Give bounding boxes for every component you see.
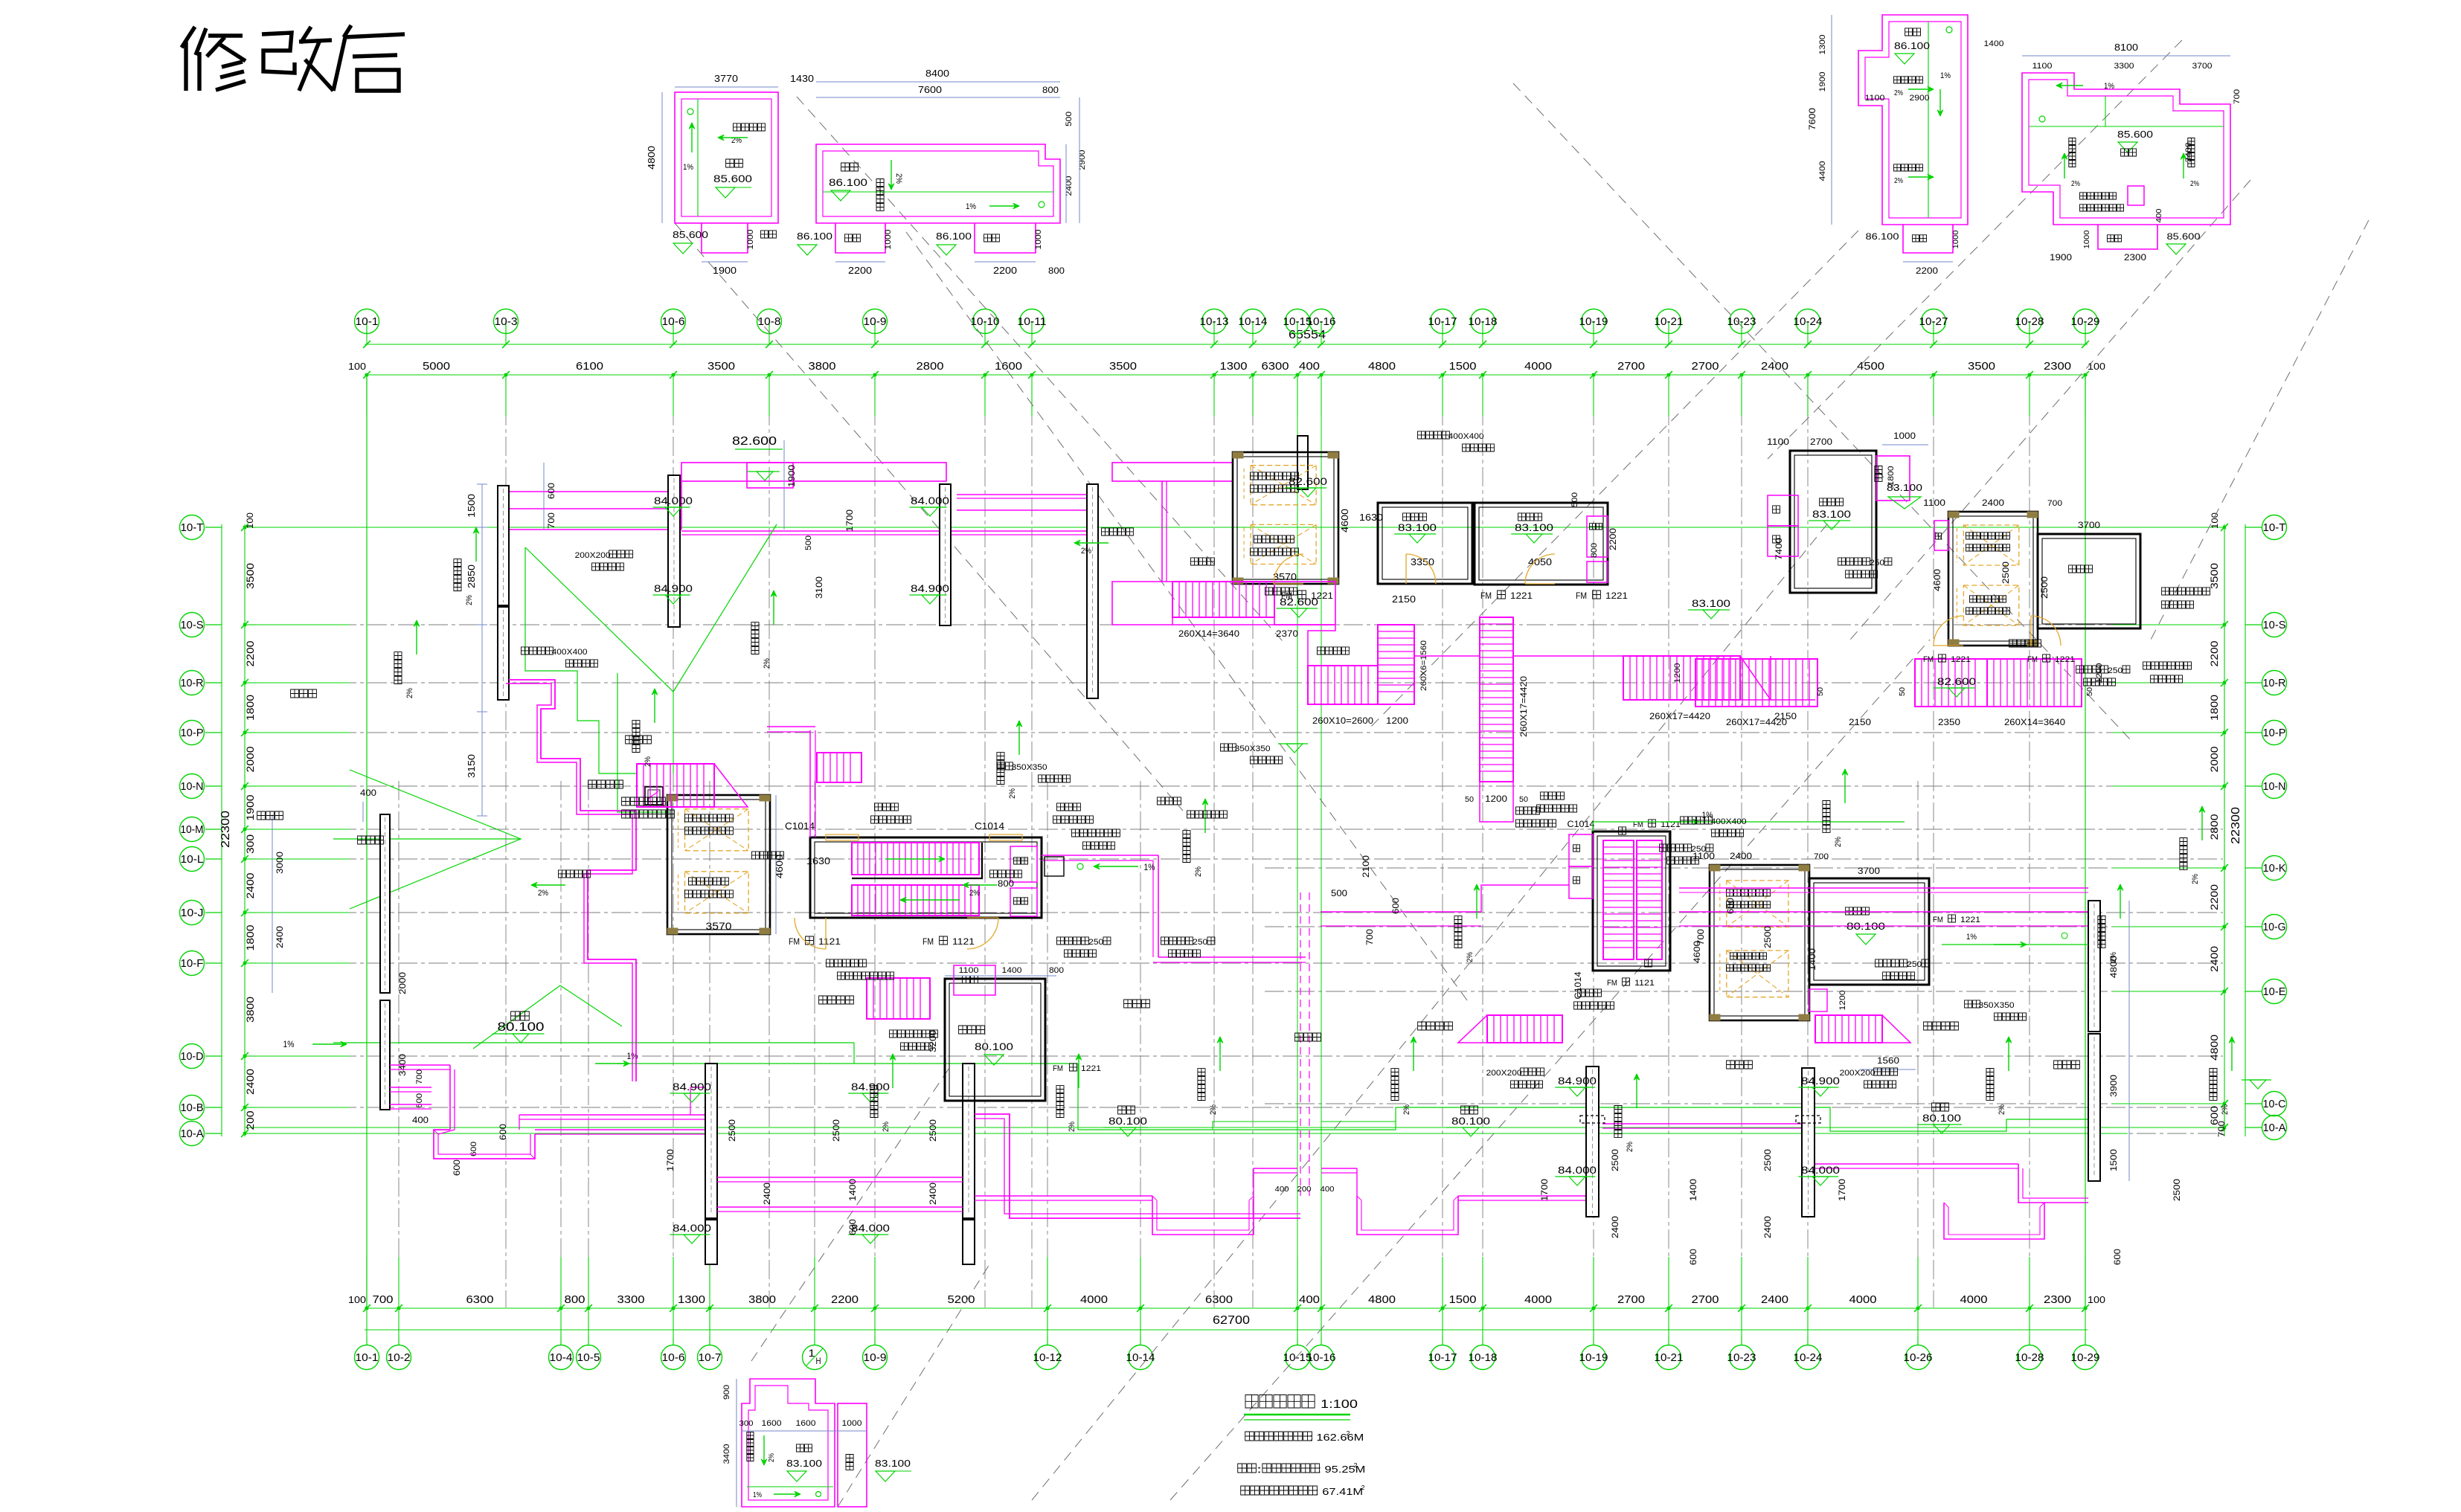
svg-text:1121: 1121 bbox=[952, 936, 975, 947]
svg-text:84.900: 84.900 bbox=[911, 582, 949, 594]
svg-text:2400: 2400 bbox=[1730, 851, 1752, 861]
svg-text:1%: 1% bbox=[283, 1039, 295, 1049]
svg-text:2200: 2200 bbox=[848, 265, 872, 276]
svg-text:10-24: 10-24 bbox=[1794, 315, 1823, 328]
svg-text:10-26: 10-26 bbox=[1904, 1351, 1933, 1364]
svg-text:500: 500 bbox=[1065, 112, 1074, 126]
svg-text:2%: 2% bbox=[1402, 1104, 1411, 1115]
magenta boundary top-center bbox=[1112, 582, 1815, 822]
detail C top-right bbox=[1807, 15, 2004, 276]
svg-text:1%: 1% bbox=[966, 202, 976, 211]
watershed labels bbox=[257, 689, 2080, 1069]
svg-text:10-6: 10-6 bbox=[662, 1351, 685, 1364]
svg-text:800: 800 bbox=[1048, 266, 1065, 276]
svg-text:10-16: 10-16 bbox=[1307, 1351, 1336, 1364]
svg-text:50: 50 bbox=[1519, 796, 1528, 804]
svg-text:FM: FM bbox=[923, 936, 934, 947]
svg-text:1400: 1400 bbox=[1002, 966, 1022, 975]
svg-text:4800: 4800 bbox=[646, 146, 657, 170]
stairs top-right cluster bbox=[1673, 640, 2104, 727]
svg-text:400X400: 400X400 bbox=[1448, 432, 1484, 441]
svg-text:2700: 2700 bbox=[1617, 1293, 1645, 1306]
svg-text:2900: 2900 bbox=[1910, 94, 1930, 103]
svg-text:3570: 3570 bbox=[1273, 571, 1297, 582]
svg-text:700: 700 bbox=[2216, 1121, 2227, 1137]
svg-text:62700: 62700 bbox=[1213, 1314, 1250, 1327]
svg-text:10-29: 10-29 bbox=[2071, 1351, 2100, 1364]
svg-text:10-E: 10-E bbox=[2263, 985, 2286, 998]
svg-text:260X14=3640: 260X14=3640 bbox=[2004, 717, 2065, 727]
svg-text:80.100: 80.100 bbox=[498, 1020, 545, 1034]
svg-text:2%: 2% bbox=[1008, 788, 1017, 799]
svg-text:10-S: 10-S bbox=[2263, 619, 2286, 631]
svg-text:1000: 1000 bbox=[746, 230, 755, 250]
svg-text:10-29: 10-29 bbox=[2071, 315, 2100, 328]
svg-text:260X10=2600: 260X10=2600 bbox=[1312, 715, 1373, 726]
svg-text:700: 700 bbox=[2047, 499, 2062, 508]
svg-text:1500: 1500 bbox=[1449, 1293, 1477, 1306]
bottom dimension chain bbox=[348, 1293, 2105, 1337]
svg-text:1300: 1300 bbox=[678, 1293, 705, 1306]
svg-text::: : bbox=[1257, 1464, 1262, 1475]
svg-text:2%: 2% bbox=[2191, 874, 2200, 884]
green ridge lines left bbox=[333, 524, 777, 1049]
svg-text:2400: 2400 bbox=[1982, 498, 2004, 508]
svg-text:1400: 1400 bbox=[1688, 1179, 1698, 1201]
svg-text:4600: 4600 bbox=[1932, 569, 1942, 591]
svg-text:1%: 1% bbox=[753, 1491, 762, 1499]
svg-text:6300: 6300 bbox=[1205, 1293, 1233, 1306]
elevation 84.000 bbox=[848, 1222, 890, 1244]
svg-text:3700: 3700 bbox=[1858, 866, 1880, 876]
svg-text:260X14=3640: 260X14=3640 bbox=[1178, 628, 1239, 639]
svg-text:2%: 2% bbox=[1834, 837, 1843, 847]
stair SB top-center bbox=[1308, 625, 1428, 726]
right dimension chain bbox=[2208, 512, 2245, 1136]
grid horizontals dash-dot bbox=[246, 527, 2223, 1133]
svg-text:500: 500 bbox=[1570, 492, 1579, 507]
svg-text:2200: 2200 bbox=[993, 265, 1017, 276]
svg-text:FM: FM bbox=[1933, 916, 1943, 924]
green axis stubs bbox=[246, 376, 2223, 1307]
svg-text:1100: 1100 bbox=[2032, 62, 2053, 71]
svg-text:82.600: 82.600 bbox=[1289, 475, 1327, 487]
svg-text:2%: 2% bbox=[882, 1122, 891, 1132]
svg-text:2850: 2850 bbox=[466, 564, 477, 588]
svg-text:2: 2 bbox=[1361, 1484, 1366, 1491]
svg-text:3500: 3500 bbox=[1109, 360, 1137, 373]
svg-text:85.600: 85.600 bbox=[2167, 231, 2201, 242]
svg-text:86.100: 86.100 bbox=[1894, 40, 1930, 51]
svg-text:1100: 1100 bbox=[1865, 94, 1885, 103]
svg-text:400X400: 400X400 bbox=[552, 648, 588, 657]
svg-text:3100: 3100 bbox=[814, 576, 824, 599]
svg-text:200: 200 bbox=[1297, 1186, 1312, 1194]
svg-text:2800: 2800 bbox=[2208, 814, 2220, 840]
svg-text:4800: 4800 bbox=[2208, 1035, 2220, 1061]
svg-text:2400: 2400 bbox=[1610, 1216, 1620, 1238]
svg-text:4000: 4000 bbox=[1960, 1293, 1988, 1306]
svg-text:3150: 3150 bbox=[466, 754, 477, 778]
svg-text:100: 100 bbox=[348, 361, 366, 372]
svg-text:300: 300 bbox=[739, 1420, 754, 1428]
svg-text:1221: 1221 bbox=[1605, 591, 1628, 601]
svg-text:2200: 2200 bbox=[831, 1293, 859, 1306]
svg-text:4800: 4800 bbox=[1368, 1293, 1396, 1306]
elevation 84.000 bbox=[1555, 1164, 1597, 1186]
svg-text:86.100: 86.100 bbox=[797, 231, 832, 242]
elevator machine room MR4 bbox=[1692, 851, 1829, 1020]
svg-text:10-9: 10-9 bbox=[864, 1351, 887, 1364]
fan rooms top-center bbox=[1378, 492, 1618, 585]
svg-text:10-14: 10-14 bbox=[1126, 1351, 1155, 1364]
svg-text:2500: 2500 bbox=[831, 1119, 841, 1142]
labels top-center bbox=[1191, 554, 1629, 605]
svg-text:3300: 3300 bbox=[2114, 62, 2134, 71]
svg-text:83.100: 83.100 bbox=[1515, 521, 1553, 533]
wind shafts mid bbox=[767, 727, 1306, 962]
parapet label bbox=[1838, 558, 1892, 578]
title text xiugaihou bbox=[182, 25, 405, 91]
svg-text:1700: 1700 bbox=[665, 1149, 676, 1171]
svg-text:700: 700 bbox=[1364, 929, 1375, 945]
svg-text:50: 50 bbox=[1465, 796, 1474, 804]
svg-text:6300: 6300 bbox=[1262, 360, 1289, 373]
svg-text:1500: 1500 bbox=[2108, 1149, 2119, 1171]
svg-text:C1014: C1014 bbox=[1568, 819, 1595, 829]
svg-text:10-3: 10-3 bbox=[495, 315, 518, 328]
svg-text:2000: 2000 bbox=[244, 746, 256, 772]
slope arrows scattered bbox=[394, 527, 2235, 1152]
svg-text:2000: 2000 bbox=[397, 972, 408, 994]
elevation 84.900 bbox=[848, 1081, 890, 1102]
svg-text:2: 2 bbox=[1354, 1462, 1358, 1469]
svg-text:250: 250 bbox=[1691, 845, 1706, 854]
svg-text:10-C: 10-C bbox=[2263, 1098, 2286, 1110]
svg-text:1000: 1000 bbox=[2083, 230, 2091, 248]
svg-text:2400: 2400 bbox=[244, 1069, 256, 1095]
svg-text:3500: 3500 bbox=[2208, 563, 2220, 589]
parapet label bbox=[1876, 959, 1929, 979]
svg-text:10-12: 10-12 bbox=[1033, 1351, 1062, 1364]
svg-text:1900: 1900 bbox=[244, 794, 256, 820]
green roof lines mid bbox=[283, 673, 2089, 1131]
svg-text:10-18: 10-18 bbox=[1469, 1351, 1498, 1364]
svg-text:2500: 2500 bbox=[1610, 1149, 1620, 1171]
svg-text:400: 400 bbox=[2155, 208, 2163, 222]
svg-text:4000: 4000 bbox=[1080, 1293, 1108, 1306]
svg-text:2400: 2400 bbox=[762, 1183, 772, 1205]
svg-text:4600: 4600 bbox=[1339, 509, 1350, 533]
svg-text:2350: 2350 bbox=[1938, 717, 1960, 727]
svg-text:400: 400 bbox=[1275, 1186, 1289, 1194]
elevation 84.000 bbox=[1798, 1164, 1840, 1186]
svg-text:50: 50 bbox=[1817, 687, 1825, 696]
elevator machine room MR2 bbox=[1233, 452, 1383, 584]
svg-text:1560: 1560 bbox=[1877, 1055, 1899, 1066]
axis bubbles top bbox=[355, 309, 2100, 335]
svg-text:C1014: C1014 bbox=[975, 820, 1004, 831]
bottom band piers right bbox=[1580, 1067, 1820, 1217]
svg-text:10-17: 10-17 bbox=[1428, 1351, 1457, 1364]
svg-text:2200: 2200 bbox=[244, 640, 256, 666]
svg-text:4800: 4800 bbox=[1368, 360, 1396, 373]
svg-text:80.100: 80.100 bbox=[1108, 1115, 1147, 1127]
svg-text:1221: 1221 bbox=[1510, 591, 1533, 601]
svg-text:2%: 2% bbox=[538, 889, 548, 898]
svg-text:10-28: 10-28 bbox=[2015, 315, 2044, 328]
svg-text:1700: 1700 bbox=[1837, 1179, 1847, 1201]
svg-text:1400: 1400 bbox=[1984, 39, 2004, 48]
svg-text:FM: FM bbox=[1576, 591, 1587, 601]
svg-text:1700: 1700 bbox=[844, 509, 855, 532]
svg-text:10-28: 10-28 bbox=[2015, 1351, 2044, 1364]
svg-text:1300: 1300 bbox=[1220, 360, 1248, 373]
svg-text:10-11: 10-11 bbox=[1018, 315, 1047, 328]
svg-text:800: 800 bbox=[998, 878, 1014, 889]
svg-text:1800: 1800 bbox=[2208, 695, 2220, 721]
svg-text:3570: 3570 bbox=[706, 920, 732, 932]
svg-text:2%: 2% bbox=[1466, 952, 1475, 962]
svg-text:10-5: 10-5 bbox=[577, 1351, 600, 1364]
bottom band mid magenta bbox=[717, 1177, 963, 1212]
svg-text:260X17=4420: 260X17=4420 bbox=[1518, 676, 1529, 737]
svg-text:1200: 1200 bbox=[1838, 991, 1847, 1011]
svg-text:83.100: 83.100 bbox=[1692, 597, 1730, 609]
svg-text:3800: 3800 bbox=[809, 360, 836, 373]
svg-text:3500: 3500 bbox=[244, 563, 256, 589]
svg-text:1630: 1630 bbox=[1359, 512, 1383, 523]
svg-text:1:100: 1:100 bbox=[1321, 1398, 1358, 1411]
bottom band left segment bbox=[390, 1065, 705, 1159]
svg-text:3500: 3500 bbox=[708, 360, 735, 373]
svg-text:7400: 7400 bbox=[1774, 538, 1784, 560]
svg-text:3800: 3800 bbox=[244, 997, 256, 1023]
svg-text:2400: 2400 bbox=[928, 1183, 938, 1205]
svg-text:400: 400 bbox=[360, 788, 376, 798]
svg-text:1221: 1221 bbox=[1951, 655, 1971, 664]
svg-text:700: 700 bbox=[2233, 89, 2242, 104]
mid-right corridor magenta bbox=[1321, 855, 2088, 945]
scattered labels bbox=[522, 431, 2027, 1088]
detail B top-middle bbox=[797, 68, 1087, 276]
svg-text:2370: 2370 bbox=[1276, 628, 1298, 639]
svg-text:2100: 2100 bbox=[1361, 855, 1371, 878]
svg-text:10-9: 10-9 bbox=[864, 315, 887, 328]
svg-text:10-G: 10-G bbox=[2263, 921, 2286, 933]
svg-text:1000: 1000 bbox=[1893, 431, 1916, 441]
svg-text:200X200: 200X200 bbox=[575, 551, 611, 560]
svg-text:1121: 1121 bbox=[818, 936, 841, 947]
fan room right of MR3 bbox=[1934, 520, 2140, 628]
svg-text:1900: 1900 bbox=[786, 465, 797, 487]
svg-text:: 95.25M: : 95.25M bbox=[1318, 1464, 1365, 1475]
svg-text:1100: 1100 bbox=[1767, 437, 1789, 447]
svg-text:10-N: 10-N bbox=[181, 780, 204, 793]
svg-text:6300: 6300 bbox=[466, 1293, 494, 1306]
svg-text:1000: 1000 bbox=[842, 1419, 862, 1428]
svg-text:10-18: 10-18 bbox=[1469, 315, 1498, 328]
svg-text:100: 100 bbox=[2088, 1294, 2105, 1305]
svg-text:2%: 2% bbox=[2109, 952, 2118, 962]
svg-text:84.000: 84.000 bbox=[1801, 1164, 1840, 1176]
svg-text:85.600: 85.600 bbox=[673, 229, 708, 240]
svg-text:2500: 2500 bbox=[1762, 1149, 1773, 1171]
right-center stair C1014 bbox=[1568, 819, 1681, 1000]
svg-text:600: 600 bbox=[415, 1093, 424, 1108]
svg-text:84.000: 84.000 bbox=[654, 495, 693, 506]
svg-text:250: 250 bbox=[1870, 559, 1884, 567]
west stepped roof edge bbox=[506, 680, 636, 1081]
svg-text:2700: 2700 bbox=[1692, 1293, 1719, 1306]
title block bottom bbox=[1238, 1395, 1366, 1498]
svg-text:8400: 8400 bbox=[925, 68, 949, 79]
svg-text:80.100: 80.100 bbox=[1451, 1115, 1490, 1127]
axis bubbles right bbox=[2245, 515, 2287, 1140]
elevation 84.000 bbox=[670, 1222, 711, 1244]
svg-text:H: H bbox=[816, 1356, 821, 1366]
svg-text:600: 600 bbox=[498, 1124, 508, 1140]
svg-text:6100: 6100 bbox=[576, 360, 603, 373]
fixed window label bbox=[1537, 792, 1577, 812]
detail A top-left bbox=[646, 73, 814, 276]
right edge strip bbox=[1942, 901, 2129, 1181]
svg-text:5200: 5200 bbox=[948, 1293, 975, 1306]
svg-text:FM: FM bbox=[1281, 591, 1292, 601]
svg-text:2%: 2% bbox=[2221, 1104, 2230, 1115]
svg-text:2700: 2700 bbox=[1810, 437, 1832, 447]
stair right of top-center bbox=[1623, 597, 1797, 721]
svg-text:3400: 3400 bbox=[722, 1444, 731, 1464]
svg-text:FM: FM bbox=[789, 936, 800, 947]
svg-text:84.000: 84.000 bbox=[673, 1222, 711, 1234]
piers top-left bbox=[498, 475, 1098, 700]
left dimension chain bbox=[219, 512, 257, 1137]
svg-text:1221: 1221 bbox=[1081, 1064, 1101, 1073]
svg-text:200X200: 200X200 bbox=[1840, 1069, 1876, 1078]
svg-text:2: 2 bbox=[1347, 1430, 1351, 1437]
svg-text:2300: 2300 bbox=[2044, 360, 2071, 373]
svg-text:10-1: 10-1 bbox=[356, 1351, 379, 1364]
svg-text:600: 600 bbox=[847, 1219, 858, 1235]
svg-text:3700: 3700 bbox=[2078, 520, 2100, 530]
expansion joint bbox=[1275, 892, 1335, 1196]
svg-text:100: 100 bbox=[2088, 361, 2105, 372]
grid verticals bottom-only bbox=[399, 781, 1918, 1307]
svg-text:82.600: 82.600 bbox=[1937, 675, 1976, 687]
top dimension chain bbox=[348, 329, 2105, 379]
svg-text:2%: 2% bbox=[1209, 1104, 1218, 1115]
elevation 84.900 bbox=[1555, 1075, 1597, 1096]
svg-text:2%: 2% bbox=[644, 756, 652, 767]
svg-text:350X350: 350X350 bbox=[1012, 763, 1047, 772]
svg-text:10-19: 10-19 bbox=[1579, 315, 1608, 328]
svg-text:83.100: 83.100 bbox=[1398, 521, 1437, 533]
green principal axis lines bbox=[246, 376, 2223, 1307]
svg-text:10-21: 10-21 bbox=[1655, 315, 1684, 328]
bottom band right half bbox=[975, 1124, 2088, 1239]
svg-text:85.600: 85.600 bbox=[713, 173, 752, 184]
svg-text:3700: 3700 bbox=[2192, 62, 2213, 71]
svg-text:1221: 1221 bbox=[2055, 655, 2075, 664]
svg-text:2%: 2% bbox=[405, 688, 414, 698]
svg-text:3400: 3400 bbox=[2184, 143, 2193, 163]
svg-text:2500: 2500 bbox=[2039, 576, 2050, 599]
svg-text:1900: 1900 bbox=[713, 265, 737, 276]
svg-text:10-16: 10-16 bbox=[1307, 315, 1336, 328]
svg-text:100: 100 bbox=[245, 512, 255, 529]
svg-text:500: 500 bbox=[1331, 888, 1347, 898]
stair SD vertical bbox=[1465, 617, 1529, 804]
svg-text:1000: 1000 bbox=[1952, 230, 1960, 248]
svg-text:800: 800 bbox=[1049, 966, 1064, 975]
svg-text:1%: 1% bbox=[683, 163, 693, 172]
svg-text:FM: FM bbox=[1607, 979, 1617, 988]
detail D top-far-right bbox=[2022, 42, 2242, 263]
svg-text:1100: 1100 bbox=[959, 966, 979, 975]
svg-text:2000: 2000 bbox=[2208, 746, 2220, 772]
svg-text:250: 250 bbox=[1907, 960, 1922, 969]
svg-text:10-10: 10-10 bbox=[971, 315, 1000, 328]
svg-text:2500: 2500 bbox=[2000, 562, 2011, 584]
svg-text:2700: 2700 bbox=[1692, 360, 1719, 373]
svg-text:10-K: 10-K bbox=[2263, 862, 2286, 875]
parapet label bbox=[2076, 666, 2130, 686]
svg-text:700: 700 bbox=[373, 1293, 394, 1306]
svg-text:2200: 2200 bbox=[1608, 528, 1618, 550]
small stairs right-center bbox=[1418, 991, 1959, 1070]
svg-text:: 67.41M: : 67.41M bbox=[1315, 1486, 1363, 1497]
svg-text:FM: FM bbox=[2027, 655, 2038, 664]
svg-text:600: 600 bbox=[546, 483, 556, 499]
svg-text:10-L: 10-L bbox=[181, 853, 204, 866]
svg-text:800: 800 bbox=[1042, 85, 1059, 95]
fan room MR6 top bbox=[1767, 431, 1928, 593]
svg-text:2%: 2% bbox=[969, 889, 980, 898]
svg-text:7600: 7600 bbox=[1807, 108, 1817, 130]
svg-text:900: 900 bbox=[722, 1385, 731, 1400]
svg-text:1200: 1200 bbox=[1386, 715, 1408, 726]
svg-text:10-T: 10-T bbox=[2263, 521, 2286, 534]
svg-text:83.100: 83.100 bbox=[786, 1458, 822, 1469]
svg-text:4500: 4500 bbox=[1857, 360, 1884, 373]
svg-text:400: 400 bbox=[1321, 1186, 1335, 1194]
svg-text:4400: 4400 bbox=[1818, 161, 1827, 181]
bottom-left detail bbox=[722, 1379, 911, 1507]
svg-text:2200: 2200 bbox=[2208, 884, 2220, 910]
svg-text:2400: 2400 bbox=[1761, 1293, 1788, 1306]
svg-text:1400: 1400 bbox=[847, 1179, 858, 1201]
svg-text:85.600: 85.600 bbox=[2117, 129, 2153, 140]
svg-text:84.900: 84.900 bbox=[654, 582, 693, 594]
svg-text:3800: 3800 bbox=[748, 1293, 776, 1306]
svg-text:84.000: 84.000 bbox=[911, 495, 949, 506]
svg-text:10-19: 10-19 bbox=[1579, 1351, 1608, 1364]
svg-text:2300: 2300 bbox=[2044, 1293, 2071, 1306]
svg-text:2200: 2200 bbox=[2208, 640, 2220, 666]
elevation 84.900 bbox=[1798, 1075, 1840, 1096]
svg-text:10-B: 10-B bbox=[181, 1101, 204, 1114]
svg-text:800: 800 bbox=[565, 1293, 585, 1306]
dashed leader diagonals bbox=[675, 40, 2369, 1507]
svg-text:4000: 4000 bbox=[1524, 360, 1552, 373]
svg-text:200X200: 200X200 bbox=[1486, 1069, 1522, 1078]
stair SA top-center bbox=[1172, 582, 1335, 639]
svg-text:83.100: 83.100 bbox=[875, 1458, 911, 1469]
svg-text:260X17=4420: 260X17=4420 bbox=[1726, 717, 1787, 727]
svg-text:2500: 2500 bbox=[727, 1119, 737, 1142]
svg-text:2500: 2500 bbox=[928, 1119, 938, 1142]
